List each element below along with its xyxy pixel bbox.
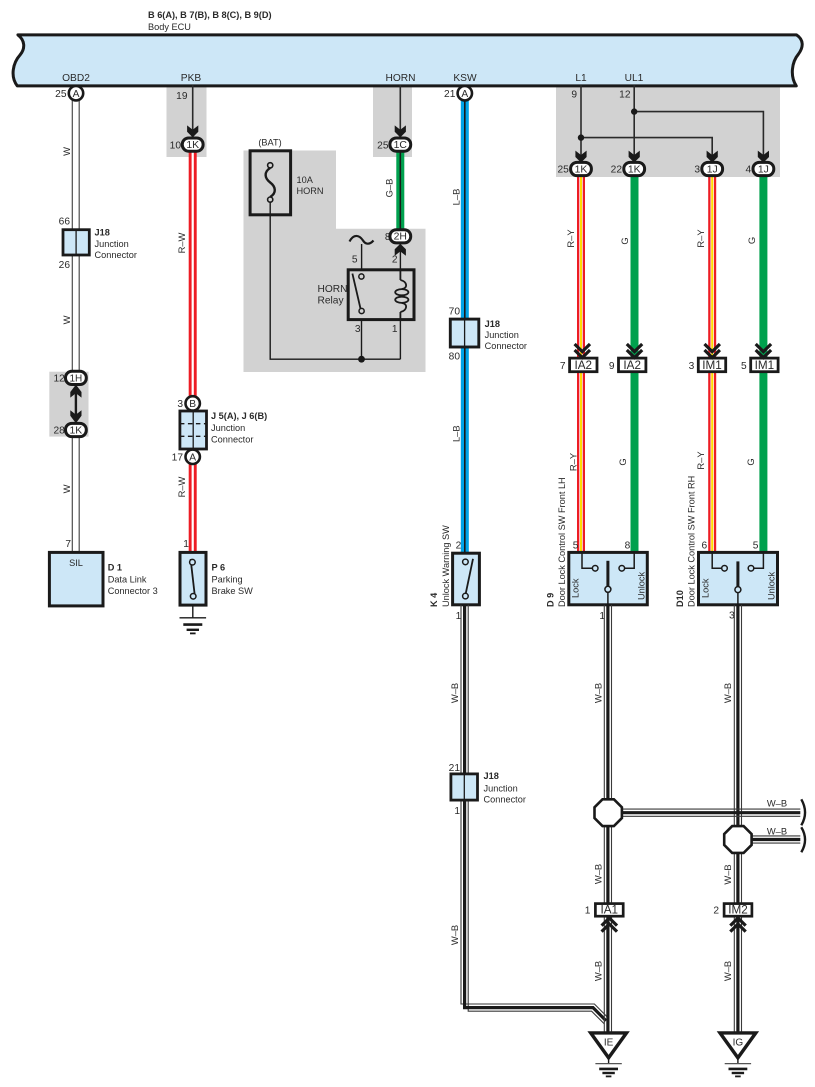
ground below P6 [180,605,207,633]
svg-text:G: G [619,237,630,244]
svg-text:1: 1 [183,539,189,550]
pin circle A OBD2 [55,86,83,100]
junction connector J18 (K4 wire) [449,763,526,817]
connector oval 1K (OBD2) [53,423,86,436]
svg-text:W: W [61,315,72,324]
svg-text:B: B [189,399,196,410]
svg-text:J 5(A), J 6(B): J 5(A), J 6(B) [211,411,267,421]
svg-text:7: 7 [560,361,566,372]
svg-text:IM1: IM1 [755,359,774,372]
svg-text:1K: 1K [186,140,199,151]
wire stub PKB pin19 [192,85,194,138]
wire W OBD2 upper segment [72,101,79,553]
svg-text:G: G [745,458,756,465]
wire G-B HORN [396,151,404,230]
arrow into 1C HORN [395,125,406,137]
svg-text:1K: 1K [575,164,588,175]
svg-text:1: 1 [392,324,398,335]
svg-text:Unlock: Unlock [637,572,647,600]
svg-text:8: 8 [625,540,631,551]
svg-text:IG: IG [733,1038,744,1049]
svg-text:W–B: W–B [767,797,787,808]
splice octagon node (D10) [724,826,751,853]
break squiggle pin5 [350,236,374,244]
horn relay box U1 [348,270,414,320]
connector oval 1C HORN [377,138,411,151]
svg-text:5: 5 [741,361,747,372]
svg-text:Brake SW: Brake SW [212,586,254,596]
arrow into 22 1K [629,151,640,163]
connector rect IA1 [585,903,623,916]
svg-text:5: 5 [573,540,579,551]
svg-text:Connector: Connector [211,435,253,445]
svg-text:Connector 3: Connector 3 [108,586,158,596]
connector oval 1J (UL1) [746,162,774,175]
svg-text:Data Link: Data Link [108,575,147,585]
gray shade PKB strip [167,85,207,157]
svg-text:10: 10 [170,140,182,151]
svg-text:1J: 1J [758,164,769,175]
svg-text:G: G [617,458,628,465]
wire W-B K4 to ground merge [461,605,608,1024]
svg-text:Junction: Junction [485,330,519,340]
pin circle B (J5) [177,396,200,410]
svg-text:G–B: G–B [383,179,394,198]
chevrons up below IM2 [730,918,745,932]
splice octagon node (D9) [595,799,622,826]
chevrons down above IA2 pin7 [575,344,590,358]
svg-text:3: 3 [177,399,183,410]
svg-text:D 1: D 1 [108,563,122,573]
svg-text:Junction: Junction [484,783,518,793]
relay switch contact [352,274,364,314]
svg-text:W–B: W–B [722,683,733,703]
svg-text:(BAT): (BAT) [258,138,281,148]
svg-text:IM2: IM2 [728,903,747,916]
wire fuse to relay bottom [270,202,400,359]
gray shade horn relay region [244,151,426,373]
svg-text:Unlock: Unlock [767,572,777,600]
svg-text:J18: J18 [95,228,110,238]
svg-text:25: 25 [55,89,67,100]
svg-text:12: 12 [619,90,631,101]
connector rect IA2 pin9 [609,358,646,372]
continuation brace wire1 [801,799,805,825]
svg-text:5: 5 [352,254,358,265]
wire W-B D10 to octagon [734,605,741,1033]
Body ECU band [13,35,802,86]
junction connector J18 (OBD2) [59,217,137,272]
chevrons up below IA1 [602,918,617,932]
svg-text:3: 3 [694,165,700,176]
svg-text:HORN: HORN [318,284,348,295]
svg-text:W–B: W–B [767,825,787,836]
svg-text:IA2: IA2 [575,359,593,372]
svg-text:Junction: Junction [211,423,245,433]
svg-text:R–W: R–W [176,232,187,253]
svg-text:1C: 1C [394,140,408,151]
svg-text:W–B: W–B [449,925,460,945]
svg-text:Body ECU: Body ECU [148,22,191,32]
switch D10 Door Lock Control SW Front RH [675,476,778,622]
svg-text:P 6: P 6 [212,563,226,573]
svg-text:9: 9 [571,90,577,101]
svg-text:2: 2 [713,906,719,917]
svg-text:17: 17 [172,452,184,463]
svg-text:Connector: Connector [484,795,526,805]
chevrons down above IA2 pin9 [627,344,642,358]
ground point IE [591,1033,627,1077]
svg-text:W: W [61,484,72,493]
svg-text:6: 6 [702,540,708,551]
svg-text:R–Y: R–Y [565,229,576,248]
wire R-Y L1 to D9 pin5 [577,176,585,553]
svg-text:W–B: W–B [722,961,733,981]
switch K4 Unlock Warning SW [429,525,479,622]
wire R-W PKB [189,151,197,552]
wire G to D10 pin5 [759,176,767,553]
gray shade HORN strip [373,85,412,157]
wire relay pin5 [361,244,363,270]
svg-text:19: 19 [176,91,188,102]
wire relay pin1 [399,320,401,360]
svg-text:J18: J18 [485,319,500,329]
svg-text:HORN: HORN [386,73,416,84]
svg-text:R–Y: R–Y [695,229,706,248]
switch D9 Door Lock Control SW Front LH [546,477,648,622]
svg-text:Unlock Warning SW: Unlock Warning SW [441,525,451,607]
svg-text:Lock: Lock [701,578,711,598]
arrow into 1K PKB [187,125,198,137]
connector box D1 Data Link Connector 3 [49,539,157,606]
svg-text:66: 66 [59,217,71,228]
svg-text:UL1: UL1 [625,73,644,84]
svg-text:D 9: D 9 [546,593,556,607]
svg-text:Door Lock Control SW Front LH: Door Lock Control SW Front LH [557,477,567,607]
svg-text:5: 5 [753,540,759,551]
svg-text:28: 28 [53,425,65,436]
svg-text:L–B: L–B [451,425,462,442]
svg-text:Connector: Connector [95,250,137,260]
wire W-B octagon2 to right edge [752,836,801,843]
wire stub HORN pin25 [399,85,401,138]
relay coil [395,270,408,320]
svg-text:9: 9 [609,361,615,372]
svg-text:A: A [73,89,80,100]
svg-text:G: G [746,237,757,244]
connector oval 1K (UL1) [611,162,645,175]
fuse 10A HORN [250,138,323,215]
svg-text:A: A [461,89,468,100]
pin circle A (J5) [172,450,200,464]
svg-text:12: 12 [53,374,65,385]
svg-text:L–B: L–B [451,189,462,206]
svg-text:2: 2 [456,540,462,551]
svg-text:L1: L1 [575,73,587,84]
connector rect IM1 pin3 [689,358,726,372]
svg-text:KSW: KSW [453,73,477,84]
svg-text:3: 3 [355,324,361,335]
node relay pin3 junction [358,356,365,363]
svg-text:1K: 1K [628,164,641,175]
wire L-B KSW [461,101,469,554]
svg-text:IE: IE [604,1038,614,1049]
svg-text:25: 25 [557,165,569,176]
connector oval 2H [385,230,411,243]
connector oval 1K (L1) [557,162,591,175]
svg-text:21: 21 [444,89,456,100]
svg-text:1H: 1H [70,374,83,385]
svg-text:4: 4 [746,165,752,176]
svg-text:IA2: IA2 [623,359,641,372]
svg-text:2: 2 [392,254,398,265]
svg-text:Relay: Relay [318,296,345,307]
connector rect IA2 pin7 [560,358,597,372]
arrow into 3 1J [707,151,718,163]
svg-text:25: 25 [377,140,389,151]
wire relay pin3 [361,320,363,360]
svg-text:A: A [189,452,196,463]
svg-text:22: 22 [611,165,623,176]
gray shade L1/UL1 block [556,85,780,177]
svg-text:W–B: W–B [593,961,604,981]
connector rect IM2 [713,903,751,916]
pin circle A KSW [444,86,472,100]
svg-text:10A: 10A [297,175,314,185]
svg-text:Connector: Connector [485,341,527,351]
wire R-Y to D10 pin6 [708,176,716,553]
gray shade OBD2 1H/1K block [49,372,88,437]
svg-text:Junction: Junction [95,239,129,249]
wire relay pin2 to 2H [399,244,401,270]
svg-text:2H: 2H [394,232,407,243]
connector rect IM1 pin5 [741,358,778,372]
svg-text:3: 3 [689,361,695,372]
junction connector J5 J6 [180,411,267,449]
svg-text:80: 80 [449,352,461,363]
svg-text:Lock: Lock [571,578,581,598]
chevrons down above IM1 pin5 [756,344,771,358]
ground point IG [720,1033,756,1077]
svg-text:21: 21 [449,763,461,774]
wire W-B D9 to octagon [604,605,611,1033]
switch P6 Parking Brake SW [180,539,253,605]
svg-text:7: 7 [65,539,71,550]
svg-text:J18: J18 [484,771,499,781]
svg-text:Door Lock Control SW Front RH: Door Lock Control SW Front RH [687,476,697,607]
svg-text:R–W: R–W [176,476,187,497]
svg-text:IA1: IA1 [601,903,619,916]
svg-text:1: 1 [585,906,591,917]
node UL1 branch junction [631,108,637,114]
connector oval 1J (L1) [694,162,722,175]
svg-text:B 6(A), B 7(B), B 8(C), B 9(D): B 6(A), B 7(B), B 8(C), B 9(D) [148,10,272,20]
wire G UL1 to D9 pin8 [631,176,639,553]
svg-text:1K: 1K [70,426,83,437]
svg-text:OBD2: OBD2 [62,73,90,84]
chevrons down above IM1 pin3 [705,344,720,358]
connector oval 1H (OBD2) [53,371,86,384]
svg-text:W: W [61,147,72,156]
svg-text:1J: 1J [707,164,718,175]
svg-text:R–Y: R–Y [695,451,706,470]
wire W-B octagon1 to right edge [622,809,800,816]
svg-text:R–Y: R–Y [568,452,579,471]
svg-text:HORN: HORN [297,186,324,196]
svg-text:Parking: Parking [212,575,243,585]
svg-text:W–B: W–B [449,683,460,703]
svg-text:PKB: PKB [181,73,202,84]
svg-text:W–B: W–B [722,864,733,884]
wire L1 branch [581,85,763,163]
svg-text:SIL: SIL [69,558,83,568]
arrow into 25 1K [575,151,586,163]
arrow up into 2H [395,244,406,256]
node L1 branch junction [578,134,584,140]
svg-text:K 4: K 4 [429,592,439,607]
svg-text:D10: D10 [675,590,685,607]
svg-text:W–B: W–B [593,683,604,703]
arrow into 4 1J [758,151,769,163]
junction connector J18 (KSW) [449,306,527,362]
svg-text:70: 70 [449,306,461,317]
svg-text:IM1: IM1 [702,359,721,372]
double arrow 1H-1K [70,385,81,424]
continuation brace wire2 [801,827,805,852]
connector oval 1K PKB [170,138,203,151]
svg-text:26: 26 [59,260,71,271]
svg-text:W–B: W–B [593,864,604,884]
svg-text:1: 1 [454,806,460,817]
